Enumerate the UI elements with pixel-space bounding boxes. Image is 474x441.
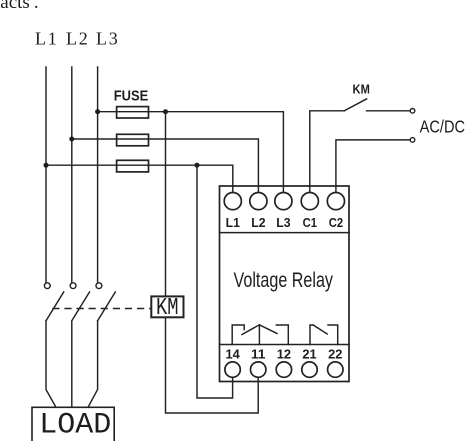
contact 21 lead (310, 325, 313, 345)
wire fuse3 branch to terminal 14 (197, 165, 233, 398)
contactor pole 1 fixed contact (44, 283, 50, 289)
svg-text:KM: KM (156, 295, 179, 322)
wire C1 to KM switch (310, 111, 345, 193)
node junction KM coil branch (163, 109, 168, 114)
contact 12 fixed lead (276, 325, 288, 345)
svg-text:L3: L3 (276, 215, 290, 230)
wire fuse row 2 (L2 phase to relay L2) (72, 139, 259, 193)
svg-text:C2: C2 (329, 215, 343, 230)
svg-text:22: 22 (328, 346, 342, 361)
dashed linkage to KM (53, 308, 151, 310)
svg-text:KM: KM (353, 83, 370, 97)
relay top strip divider (220, 232, 350, 234)
terminal 12 circle (276, 362, 291, 377)
svg-text:L2: L2 (251, 215, 265, 230)
wire phase L3 vertical (97, 67, 99, 283)
contactor pole 2 fixed contact (70, 283, 76, 289)
fuse F3 (117, 160, 149, 172)
node AC/DC terminal bottom (410, 138, 415, 143)
contactor pole 3 blade (98, 292, 116, 321)
wire AC/DC bottom to relay C2 (336, 140, 410, 193)
svg-text:ntacts: ntacts (0, 0, 30, 13)
contact 21 blade (313, 325, 327, 334)
terminal L1 circle (224, 193, 241, 210)
contact 14 fixed lead (232, 325, 244, 345)
svg-text:14: 14 (225, 346, 240, 361)
relay U1 box (220, 186, 350, 382)
terminal L2 circle (250, 193, 267, 210)
terminal 22 circle (328, 362, 343, 377)
wire phase L2 vertical (71, 67, 73, 283)
svg-text:11: 11 (251, 346, 265, 361)
wire KM coil bottom to terminal 11 (166, 317, 259, 413)
coil KM box (151, 296, 183, 317)
svg-text:L1: L1 (226, 215, 240, 230)
contactor pole 1 blade (46, 292, 64, 321)
wire fuse row 3 (L1 phase to relay L1) (46, 165, 233, 192)
wire pole 1 to load (46, 321, 56, 408)
wire KM coil top (165, 112, 167, 297)
svg-text:L2: L2 (66, 29, 90, 49)
terminal 14 circle (225, 362, 240, 377)
contactor pole 2 blade (72, 292, 90, 321)
fuse F2 (117, 134, 149, 146)
wire phase L1 vertical (45, 67, 47, 283)
wire fuse row 1 (L3 phase to relay L3) (98, 112, 284, 193)
node junction contact-14 branch (195, 163, 200, 168)
contact 11 changeover blade (242, 325, 277, 335)
svg-text:L1: L1 (35, 29, 59, 49)
terminal 11 circle (251, 362, 266, 377)
terminal C1 circle (301, 193, 318, 210)
node AC/DC terminal top (410, 109, 415, 114)
relay bottom strip divider (220, 344, 350, 346)
fuse F1 (117, 107, 149, 118)
terminal L3 circle (275, 193, 292, 210)
terminal 21 circle (302, 362, 317, 377)
svg-text:.: . (34, 0, 39, 13)
wire pole 2 to load (71, 321, 73, 408)
node junction L1/fuse3 (44, 163, 49, 168)
wire KM switch to AC/DC terminal (367, 110, 411, 112)
switch KM blade (344, 99, 366, 111)
svg-text:C1: C1 (303, 215, 317, 230)
node junction L3/fuse1 (95, 109, 100, 114)
svg-text:LOAD: LOAD (39, 408, 111, 441)
LOAD box (32, 407, 114, 441)
svg-text:FUSE: FUSE (114, 88, 149, 104)
contact 11 lead (258, 325, 260, 345)
svg-text:Voltage Relay: Voltage Relay (234, 269, 334, 292)
wire pole 3 to load (88, 321, 98, 408)
contactor pole 3 fixed contact (96, 283, 102, 289)
terminal C2 circle (327, 193, 344, 210)
svg-text:21: 21 (302, 346, 316, 361)
svg-text:L3: L3 (96, 29, 120, 49)
svg-text:AC/DC: AC/DC (420, 116, 466, 136)
node junction L2/fuse2 (69, 137, 74, 142)
svg-text:12: 12 (277, 346, 291, 361)
contact 22 fixed lead (328, 325, 338, 345)
